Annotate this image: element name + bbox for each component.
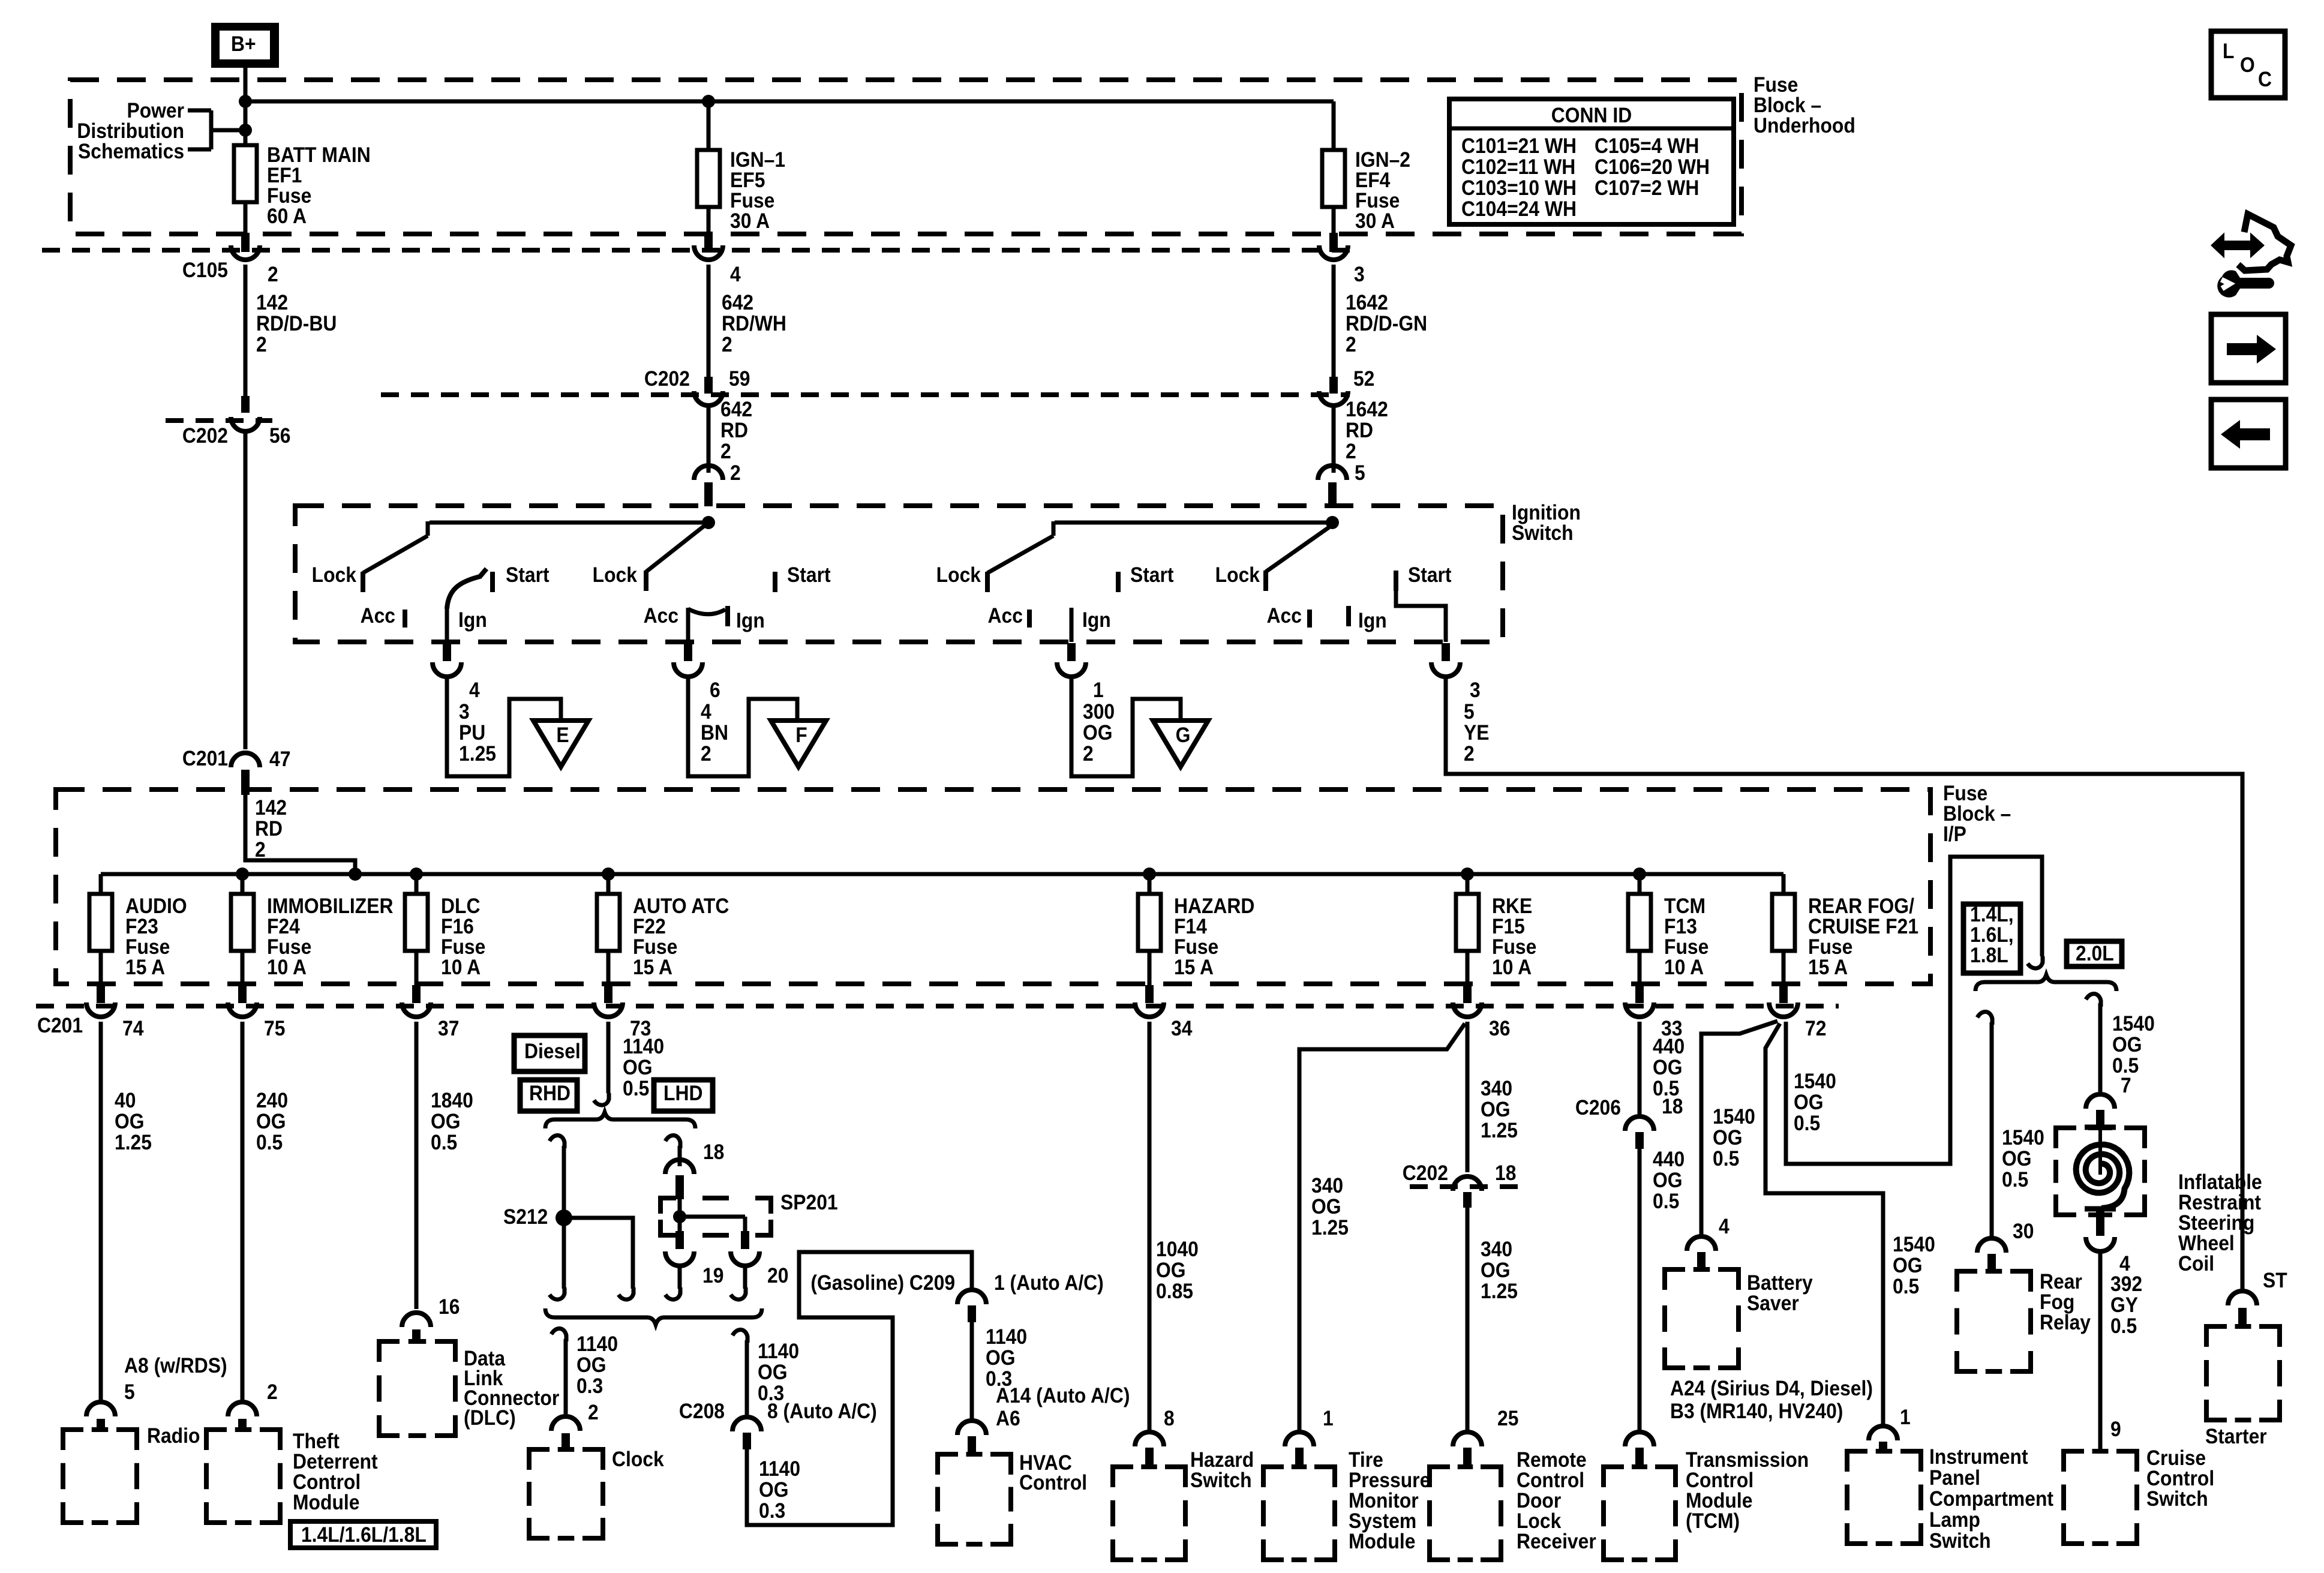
wire 340 OG 1.25 to tire pressure monitor — [1299, 1023, 1465, 1434]
svg-text:1540: 1540 — [1713, 1106, 1755, 1129]
svg-text:1.4L/1.6L/1.8L: 1.4L/1.6L/1.8L — [301, 1524, 427, 1547]
svg-text:E: E — [556, 724, 569, 748]
label A24 B3 pin options — [1670, 1377, 1873, 1424]
wire 1642 RD 2 to ignition switch — [1334, 398, 1388, 485]
wire 142 RD 2 to C201 — [244, 431, 248, 749]
connector ignition switch output pin 6 — [674, 643, 720, 702]
svg-text:S212: S212 — [503, 1206, 548, 1229]
svg-text:0.85: 0.85 — [1156, 1280, 1193, 1304]
connector SP201 pin 18 — [665, 1160, 694, 1199]
connector HVAC pin A14/A6 — [957, 1421, 986, 1454]
wire 1540 OG 0.5 to engine option split — [1786, 857, 2043, 1164]
splice SP201 dashed box — [660, 1191, 838, 1235]
svg-text:1 (Auto A/C): 1 (Auto A/C) — [994, 1272, 1104, 1295]
module box Instrument Panel Compartment Lamp Switch — [1847, 1446, 2053, 1553]
module box Radio — [63, 1425, 200, 1523]
svg-text:59: 59 — [729, 368, 750, 391]
svg-text:ST: ST — [2263, 1269, 2287, 1293]
svg-text:HAZARD: HAZARD — [1174, 895, 1254, 918]
connector C202 pin 18 — [1453, 1176, 1482, 1208]
svg-text:Fuse: Fuse — [1664, 936, 1709, 959]
svg-text:F23: F23 — [125, 915, 158, 939]
svg-text:340: 340 — [1481, 1238, 1512, 1262]
svg-text:Monitor: Monitor — [1349, 1490, 1419, 1513]
svg-text:30 A: 30 A — [1355, 210, 1395, 233]
svg-text:2: 2 — [701, 743, 711, 766]
svg-text:52: 52 — [1353, 368, 1374, 391]
wire I/P fuse bus — [101, 867, 1783, 881]
svg-text:Saver: Saver — [1747, 1292, 1799, 1316]
icon box LOC — [2211, 31, 2285, 98]
module box Theft Deterrent Control Module — [206, 1430, 378, 1523]
svg-text:Deterrent: Deterrent — [293, 1451, 378, 1474]
ignition switch section 4 contacts — [1215, 516, 1452, 642]
svg-text:Wheel: Wheel — [2178, 1232, 2235, 1256]
svg-text:Control: Control — [1686, 1469, 1753, 1493]
option merge brace below S212/SP201 — [545, 1308, 762, 1325]
module box HVAC Control — [938, 1452, 1087, 1544]
svg-text:Control: Control — [293, 1471, 361, 1494]
svg-text:OG: OG — [1893, 1254, 1923, 1278]
svg-text:C104=24 WH: C104=24 WH — [1461, 198, 1577, 221]
connector theft deterrent pin 2 — [228, 1402, 257, 1431]
svg-text:8: 8 — [1164, 1407, 1175, 1431]
wire inside SP201 — [673, 1197, 745, 1231]
svg-text:9: 9 — [2110, 1418, 2121, 1442]
ignition switch section 3 contacts — [936, 521, 1332, 642]
splice S212 — [503, 1206, 572, 1229]
svg-text:0.5: 0.5 — [2110, 1315, 2137, 1338]
connector battery saver pin 4 — [1687, 1236, 1716, 1269]
svg-text:Switch: Switch — [2146, 1488, 2208, 1511]
svg-text:Clock: Clock — [612, 1448, 664, 1472]
svg-text:18: 18 — [1662, 1095, 1683, 1119]
wire 340 OG 1.25 to C202 pin 18 — [1403, 1022, 1518, 1185]
svg-text:Diesel: Diesel — [524, 1040, 581, 1064]
svg-text:25: 25 — [1497, 1407, 1518, 1431]
svg-text:142: 142 — [256, 292, 288, 315]
svg-text:Module: Module — [1349, 1530, 1415, 1554]
label Fuse Block - Underhood — [1753, 74, 1855, 138]
svg-text:56: 56 — [269, 425, 290, 448]
icon box arrow left — [2211, 400, 2286, 468]
svg-text:1140: 1140 — [758, 1340, 799, 1364]
svg-text:B3 (MR140, HV240): B3 (MR140, HV240) — [1670, 1400, 1843, 1424]
svg-text:Radio: Radio — [147, 1425, 200, 1448]
connector line C202 dotted — [381, 392, 1350, 397]
svg-text:18: 18 — [1495, 1162, 1516, 1185]
fuse CRUISE F21 REAR FOG/ — [1772, 874, 1918, 985]
svg-text:1.25: 1.25 — [1481, 1119, 1518, 1143]
svg-text:Module: Module — [1686, 1490, 1752, 1513]
engine option label 1.4L/1.6L/1.8L — [290, 1521, 436, 1548]
svg-text:300: 300 — [1083, 701, 1115, 724]
svg-text:EF4: EF4 — [1355, 169, 1391, 193]
svg-text:Start: Start — [1130, 564, 1174, 587]
svg-text:1.25: 1.25 — [1311, 1217, 1349, 1240]
svg-text:Fuse: Fuse — [1355, 190, 1400, 213]
svg-text:OG: OG — [1083, 722, 1113, 745]
svg-text:RD: RD — [255, 818, 283, 841]
svg-text:15 A: 15 A — [633, 956, 672, 980]
option split brace engines — [1975, 975, 2116, 991]
module box Hazard Switch — [1113, 1449, 1254, 1560]
svg-text:OG: OG — [1794, 1091, 1824, 1115]
wire 1540 OG 0.5 to rear fog relay — [1977, 1011, 2044, 1243]
connector C206 pin 18 — [1625, 1116, 1654, 1149]
svg-text:CRUISE F21: CRUISE F21 — [1808, 915, 1918, 939]
svg-text:2.0L: 2.0L — [2076, 942, 2114, 966]
svg-text:C: C — [2258, 68, 2272, 92]
svg-text:75: 75 — [264, 1017, 285, 1041]
svg-text:2: 2 — [730, 462, 741, 485]
connector C201 pin 74 — [86, 985, 144, 1040]
wire 1140 OG 0.3 to clock — [551, 1328, 618, 1424]
svg-text:440: 440 — [1653, 1148, 1685, 1172]
wire 1040 OG 0.85 to hazard switch — [1149, 1022, 1199, 1434]
svg-text:OG: OG — [1481, 1098, 1511, 1122]
svg-text:37: 37 — [438, 1017, 459, 1041]
svg-text:RKE: RKE — [1492, 895, 1532, 918]
triangle connector E — [533, 721, 588, 767]
connector hazard switch pin 8 — [1135, 1432, 1164, 1467]
svg-text:Acc: Acc — [361, 605, 395, 628]
svg-text:Hazard: Hazard — [1190, 1449, 1254, 1472]
svg-text:2: 2 — [256, 334, 267, 357]
svg-text:19: 19 — [702, 1265, 723, 1288]
svg-text:15 A: 15 A — [1174, 956, 1214, 980]
svg-text:16: 16 — [439, 1296, 460, 1319]
svg-text:Inflatable: Inflatable — [2178, 1171, 2262, 1194]
connector C202 pin 52 — [1319, 368, 1374, 406]
label Fuse Block - I/P — [1943, 782, 2011, 846]
svg-text:Door: Door — [1517, 1490, 1561, 1513]
svg-text:7: 7 — [2121, 1074, 2131, 1098]
svg-text:1140: 1140 — [623, 1035, 664, 1059]
svg-text:40: 40 — [115, 1089, 136, 1113]
svg-text:15 A: 15 A — [1808, 956, 1848, 980]
svg-text:4: 4 — [701, 701, 711, 724]
svg-text:F13: F13 — [1664, 915, 1697, 939]
module box inflatable restraint steering wheel coil — [2056, 1128, 2262, 1275]
svg-text:System: System — [1349, 1510, 1416, 1533]
battery positive voltage terminal B+ — [211, 23, 279, 68]
svg-text:AUTO ATC: AUTO ATC — [633, 895, 729, 918]
svg-text:1140: 1140 — [577, 1333, 618, 1356]
wire 340 OG 1.25 to door lock receiver — [1467, 1208, 1518, 1434]
svg-text:4: 4 — [469, 679, 480, 703]
svg-text:2: 2 — [720, 440, 731, 464]
wire bus B+ to IGN-1 and IGN-2 fuses — [245, 95, 1334, 150]
svg-text:OG: OG — [758, 1361, 788, 1385]
fuse EF1 BATT MAIN 60A — [234, 144, 371, 234]
fuse block underhood dashed box — [70, 80, 1742, 234]
svg-text:Fuse: Fuse — [267, 185, 311, 208]
svg-text:SP201: SP201 — [780, 1191, 838, 1215]
svg-text:Tire: Tire — [1349, 1449, 1383, 1472]
svg-text:IMMOBILIZER: IMMOBILIZER — [267, 895, 393, 918]
svg-text:BATT MAIN: BATT MAIN — [267, 144, 371, 167]
svg-text:RD/D-BU: RD/D-BU — [256, 313, 337, 336]
wire 642 RD/WH 2 — [708, 265, 786, 377]
svg-text:C103=10 WH: C103=10 WH — [1461, 177, 1577, 200]
svg-text:1540: 1540 — [1794, 1070, 1836, 1094]
svg-text:Fuse: Fuse — [1492, 936, 1536, 959]
svg-text:392: 392 — [2110, 1273, 2142, 1296]
option split brace RHD/LHD — [545, 1112, 695, 1128]
wire 142 RD/D-BU 2 — [245, 265, 337, 396]
ignition switch section 2 contacts — [593, 516, 831, 642]
svg-text:CONN ID: CONN ID — [1551, 104, 1632, 128]
wire 1540 OG 0.5 to battery saver — [1701, 1021, 1777, 1238]
wire 1642 RD/D-GN 2 — [1334, 265, 1427, 377]
svg-text:0.5: 0.5 — [431, 1131, 457, 1155]
module box Transmission Control Module TCM — [1604, 1449, 1809, 1560]
svg-text:0.5: 0.5 — [623, 1077, 649, 1101]
svg-text:Lock: Lock — [593, 564, 638, 587]
fuse F24 IMMOBILIZER — [231, 874, 393, 985]
svg-text:OG: OG — [1481, 1259, 1511, 1283]
svg-text:3: 3 — [1354, 263, 1365, 287]
svg-text:C208: C208 — [679, 1400, 725, 1424]
wire S212 branch — [564, 1218, 633, 1299]
svg-text:Relay: Relay — [2040, 1311, 2091, 1335]
svg-text:YE: YE — [1464, 722, 1489, 745]
svg-text:Restraint: Restraint — [2178, 1191, 2261, 1215]
svg-text:Acc: Acc — [1267, 605, 1302, 628]
svg-text:LHD: LHD — [663, 1082, 702, 1106]
connector C208 pin 8 — [732, 1417, 761, 1449]
wire 1140 OG 0.5 from AUTO ATC fuse — [594, 1022, 664, 1105]
svg-text:RD/WH: RD/WH — [722, 313, 786, 336]
svg-text:1.6L,: 1.6L, — [1970, 924, 2014, 947]
svg-text:30 A: 30 A — [730, 210, 770, 233]
svg-text:4: 4 — [730, 263, 741, 287]
svg-text:BN: BN — [701, 722, 728, 745]
svg-text:0.3: 0.3 — [759, 1500, 785, 1523]
connector SP201 pin 20 — [731, 1231, 788, 1287]
svg-text:642: 642 — [720, 398, 752, 422]
svg-text:10 A: 10 A — [1492, 956, 1532, 980]
svg-text:30: 30 — [2013, 1220, 2034, 1244]
connector ignition switch output pin 4 — [433, 643, 480, 702]
svg-text:C101=21 WH: C101=21 WH — [1461, 135, 1577, 158]
svg-text:2: 2 — [267, 1381, 278, 1404]
svg-text:F16: F16 — [441, 915, 474, 939]
connector pin into ignition switch section 2 — [694, 466, 723, 506]
svg-text:OG: OG — [1653, 1056, 1683, 1080]
svg-text:5: 5 — [1355, 462, 1365, 485]
svg-text:A6: A6 — [996, 1407, 1020, 1431]
svg-text:1140: 1140 — [759, 1458, 800, 1481]
label Power Distribution Schematics with bracket — [77, 100, 245, 164]
svg-text:F15: F15 — [1492, 915, 1525, 939]
svg-text:Remote: Remote — [1517, 1449, 1587, 1472]
svg-text:Switch: Switch — [1190, 1469, 1252, 1493]
svg-text:Block –: Block – — [1753, 94, 1821, 118]
wire 392 GY 0.5 to cruise control switch — [2100, 1251, 2142, 1452]
connector C201 pin 36 — [1453, 985, 1510, 1040]
svg-text:Receiver: Receiver — [1517, 1530, 1596, 1554]
wire pin 19 stub — [665, 1266, 680, 1299]
connector C201 pin 73 — [594, 985, 651, 1040]
svg-text:1.25: 1.25 — [115, 1131, 152, 1155]
svg-text:A14 (Auto A/C): A14 (Auto A/C) — [996, 1385, 1130, 1408]
option label Diesel — [514, 1035, 585, 1071]
svg-text:OG: OG — [623, 1056, 653, 1080]
svg-text:Power: Power — [127, 100, 184, 123]
svg-text:Control: Control — [1517, 1469, 1584, 1493]
svg-text:RD/D-GN: RD/D-GN — [1346, 313, 1427, 336]
svg-text:Lock: Lock — [312, 564, 357, 587]
svg-text:36: 36 — [1489, 1017, 1510, 1041]
svg-text:OG: OG — [2002, 1148, 2032, 1171]
wire 440 OG 0.5 to TCM — [1640, 1148, 1685, 1434]
svg-text:Battery: Battery — [1747, 1272, 1813, 1295]
svg-text:EF1: EF1 — [267, 164, 302, 188]
wire 5 YE 2 to starter ST — [1446, 677, 2242, 1291]
svg-text:2: 2 — [268, 263, 278, 287]
fuse F13 TCM — [1628, 874, 1709, 985]
wire 240 OG 0.5 to theft deterrent module — [242, 1022, 288, 1404]
svg-text:Fuse: Fuse — [441, 936, 485, 959]
svg-text:Fuse: Fuse — [1174, 936, 1218, 959]
svg-text:RD: RD — [720, 419, 748, 443]
svg-text:142: 142 — [255, 797, 287, 820]
svg-text:O: O — [2240, 54, 2255, 77]
svg-text:Fuse: Fuse — [1753, 74, 1798, 97]
svg-text:240: 240 — [256, 1089, 288, 1113]
svg-text:Lock: Lock — [1215, 564, 1260, 587]
svg-text:3: 3 — [459, 701, 470, 724]
svg-text:OG: OG — [577, 1354, 606, 1377]
svg-text:4: 4 — [1719, 1215, 1730, 1239]
connector C105 pin 3 IGN-2 — [1319, 233, 1365, 286]
wire pin 20 stub — [731, 1266, 746, 1299]
wire 142 RD 2 feed to I/P bus — [245, 793, 355, 874]
connector coil output pin 4 — [2086, 1211, 2130, 1275]
svg-text:Start: Start — [1408, 564, 1452, 587]
svg-text:Fuse: Fuse — [1808, 936, 1852, 959]
connector line C201 dotted at I/P block — [36, 1006, 1839, 1037]
wire RHD branch to S212 — [550, 1135, 565, 1299]
svg-text:(DLC): (DLC) — [464, 1407, 516, 1430]
svg-text:OG: OG — [256, 1110, 286, 1134]
module box Tire Pressure Monitor System Module — [1263, 1449, 1430, 1560]
svg-text:1642: 1642 — [1346, 292, 1388, 315]
svg-text:10 A: 10 A — [1664, 956, 1704, 980]
svg-text:0.5: 0.5 — [1653, 1190, 1679, 1214]
svg-text:2: 2 — [255, 839, 266, 862]
svg-text:Ignition: Ignition — [1512, 502, 1581, 525]
connector DLC pin 16 — [402, 1313, 431, 1343]
svg-text:AUDIO: AUDIO — [125, 895, 187, 918]
svg-text:8 (Auto A/C): 8 (Auto A/C) — [767, 1400, 877, 1424]
wire LHD branch pin 18 — [665, 1135, 724, 1166]
svg-text:OG: OG — [1156, 1259, 1186, 1283]
svg-text:PU: PU — [459, 722, 485, 745]
module box Cruise Control Switch — [2064, 1447, 2214, 1544]
connector C202 pin 59 — [644, 368, 750, 406]
svg-text:4: 4 — [2119, 1253, 2130, 1276]
svg-text:RHD: RHD — [529, 1082, 571, 1106]
CONN ID table — [1449, 99, 1734, 224]
svg-text:10 A: 10 A — [441, 956, 481, 980]
icon wrench with arrows — [2212, 214, 2291, 298]
svg-text:0.5: 0.5 — [1893, 1275, 1919, 1299]
svg-text:1: 1 — [1900, 1406, 1911, 1430]
svg-text:Start: Start — [506, 564, 550, 587]
svg-text:(Gasoline) C209: (Gasoline) C209 — [810, 1272, 955, 1295]
svg-text:DLC: DLC — [441, 895, 480, 918]
svg-text:440: 440 — [1653, 1035, 1685, 1059]
svg-text:5: 5 — [124, 1381, 135, 1404]
svg-text:Fog: Fog — [2040, 1291, 2074, 1314]
svg-text:1140: 1140 — [986, 1326, 1027, 1349]
triangle connector G — [1153, 721, 1208, 767]
option label RHD — [520, 1080, 577, 1111]
svg-text:C105=4 WH: C105=4 WH — [1595, 135, 1699, 158]
svg-text:OG: OG — [1311, 1196, 1341, 1219]
svg-text:IGN–1: IGN–1 — [730, 149, 785, 172]
svg-text:1.8L: 1.8L — [1970, 944, 2008, 968]
connector rear fog relay pin 30 — [1977, 1238, 2006, 1271]
connector C201 pin 33 — [1625, 985, 1682, 1040]
svg-text:74: 74 — [122, 1017, 144, 1041]
connector line C202 dotted segment at RKE — [1410, 1184, 1524, 1189]
svg-text:OG: OG — [431, 1110, 461, 1134]
wire 1140 OG 0.3 to HVAC control — [972, 1322, 1130, 1430]
svg-text:3: 3 — [1470, 679, 1481, 703]
svg-text:2: 2 — [1346, 440, 1356, 464]
svg-text:REAR FOG/: REAR FOG/ — [1808, 895, 1914, 918]
svg-text:Acc: Acc — [644, 605, 678, 628]
connector pin into ignition switch section 4 — [1318, 466, 1347, 506]
svg-text:B+: B+ — [231, 33, 256, 56]
fuse F14 HAZARD — [1138, 874, 1254, 985]
svg-text:18: 18 — [703, 1141, 724, 1164]
svg-text:OG: OG — [1653, 1169, 1683, 1193]
svg-text:Fuse: Fuse — [1943, 782, 1987, 806]
connector radio A8 — [86, 1402, 115, 1431]
svg-text:0.5: 0.5 — [1794, 1112, 1820, 1136]
svg-text:Fuse: Fuse — [267, 936, 311, 959]
connector C105 pin 4 IGN-1 — [694, 233, 741, 286]
svg-text:RD: RD — [1346, 419, 1373, 443]
svg-text:A8 (w/RDS): A8 (w/RDS) — [124, 1355, 227, 1378]
svg-text:C202: C202 — [1403, 1162, 1448, 1185]
svg-text:OG: OG — [1713, 1127, 1743, 1150]
svg-text:1: 1 — [1323, 1407, 1334, 1431]
svg-text:G: G — [1176, 724, 1191, 748]
module box Rear Fog Relay — [1957, 1271, 2091, 1371]
svg-text:Ign: Ign — [1358, 610, 1387, 633]
svg-text:2: 2 — [588, 1401, 599, 1425]
svg-text:0.5: 0.5 — [2002, 1169, 2028, 1192]
svg-text:IGN–2: IGN–2 — [1355, 149, 1410, 172]
wire 1840 OG 0.5 to DLC — [416, 1022, 473, 1319]
svg-text:Fuse: Fuse — [730, 190, 774, 213]
svg-text:Block –: Block – — [1943, 803, 2011, 826]
svg-text:Switch: Switch — [1929, 1530, 1991, 1553]
fuse block I/P dashed box — [56, 789, 1930, 984]
connector C201 pin 75 — [228, 985, 285, 1040]
fuse F16 DLC — [405, 874, 485, 985]
connector TCM pins A24 B3 — [1625, 1432, 1654, 1467]
svg-text:Transmission: Transmission — [1686, 1449, 1809, 1472]
svg-text:Steering: Steering — [2178, 1212, 2254, 1235]
svg-text:340: 340 — [1481, 1077, 1512, 1101]
